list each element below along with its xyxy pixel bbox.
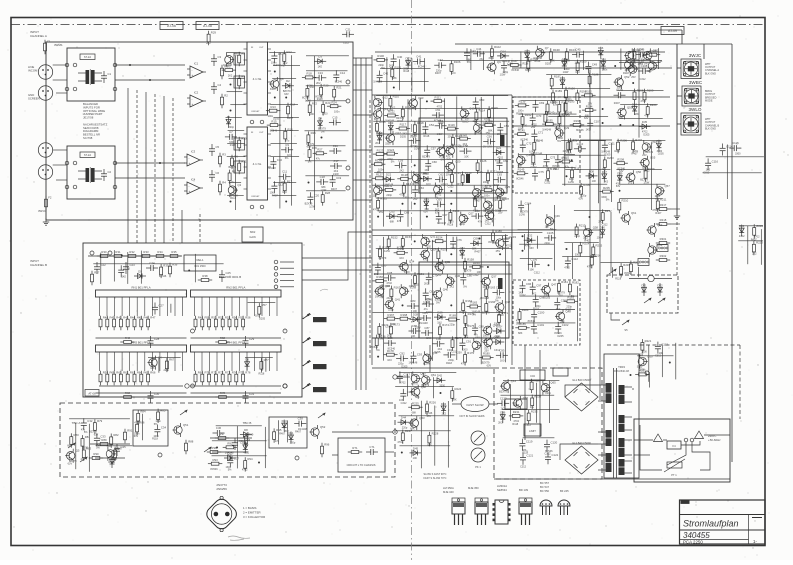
svg-text:Q7: Q7 [545, 46, 549, 50]
ground [43, 218, 49, 225]
svg-text:BC 547: BC 547 [540, 485, 549, 489]
svg-text:R181: R181 [561, 280, 568, 284]
svg-text:25V: 25V [531, 126, 536, 129]
wire [399, 372, 456, 374]
resistor R91 [124, 429, 133, 444]
svg-text:C312: C312 [401, 402, 408, 405]
TR3 secondary winding [619, 459, 633, 475]
terminal T19 [346, 166, 350, 170]
wire [738, 240, 763, 242]
resistor R205 [599, 186, 613, 193]
svg-text:R407: R407 [435, 72, 442, 75]
resistor R150 [547, 167, 558, 182]
wire [517, 322, 576, 324]
svg-text:D205: D205 [558, 335, 565, 338]
resistor R146 [533, 139, 544, 154]
svg-text:R106: R106 [454, 60, 461, 64]
svg-text:C36: C36 [216, 426, 222, 430]
bridge rectifier GL1 [565, 383, 598, 411]
capacitor C14 [333, 70, 345, 82]
svg-text:1N4148: 1N4148 [483, 146, 492, 149]
wire [53, 149, 67, 151]
wire [212, 455, 267, 457]
junction N22 [450, 190, 452, 192]
capacitor C99 [554, 298, 566, 310]
terminal T14 [260, 120, 264, 124]
svg-text:R204: R204 [583, 183, 590, 187]
resistor R9 [238, 75, 246, 90]
resistor R227 [401, 429, 412, 444]
resistor R178 [383, 349, 397, 356]
svg-text:BC 557: BC 557 [540, 481, 549, 485]
svg-text:D39: D39 [617, 172, 623, 176]
resistor R116 [375, 120, 386, 135]
junction N48 [566, 248, 568, 250]
diode D37 [602, 170, 608, 183]
wire [373, 311, 506, 313]
svg-text:R9: R9 [241, 75, 245, 79]
svg-text:1N4148: 1N4148 [409, 362, 418, 365]
wire [677, 95, 682, 97]
svg-text:Q11: Q11 [657, 59, 663, 63]
svg-text:C90: C90 [436, 337, 442, 341]
svg-text:D21: D21 [496, 146, 502, 150]
svg-text:R29: R29 [211, 31, 217, 35]
resistor R174 [439, 323, 450, 338]
diode D6 [245, 358, 250, 371]
transistor Q10 [625, 58, 640, 72]
resistor R50 [201, 316, 210, 331]
diode D22 [383, 173, 395, 182]
capacitor C59 [395, 158, 407, 168]
resistor R182 [568, 281, 579, 296]
wire [564, 242, 598, 244]
svg-text:C95: C95 [499, 348, 505, 352]
transistor Q5 [65, 449, 80, 463]
resistor R21 [333, 86, 342, 101]
svg-text:3300: 3300 [270, 88, 276, 91]
capacitor C76 [450, 237, 462, 249]
transistor Q6 [106, 447, 119, 461]
reference box AT-06 [85, 390, 99, 397]
svg-text:8C546: 8C546 [459, 311, 467, 314]
svg-text:1N4148: 1N4148 [437, 222, 446, 225]
resistor R101 [391, 66, 402, 81]
RN4 pin wires [195, 352, 278, 371]
capacitor C90 [433, 337, 445, 347]
capacitor C96 [520, 281, 532, 293]
svg-text:10K: 10K [545, 225, 550, 228]
wire [227, 143, 245, 145]
IC5 pin marks [244, 49, 272, 104]
capacitor C12 [271, 181, 283, 193]
svg-text:R90: R90 [93, 452, 99, 456]
bridge rectifier GL2 [565, 446, 598, 474]
wire [374, 146, 511, 148]
resistor R201 [567, 139, 578, 154]
resistor R128 [397, 173, 411, 180]
svg-text:1N4148: 1N4148 [542, 128, 551, 131]
wire [378, 107, 508, 109]
svg-text:R407: R407 [655, 212, 662, 215]
wire [739, 225, 763, 227]
svg-text:R78: R78 [220, 391, 226, 395]
capacitor C37 [227, 456, 239, 468]
transistor Q3 [269, 77, 284, 91]
wire [663, 439, 667, 441]
svg-text:10K: 10K [478, 171, 483, 174]
wire [564, 102, 566, 186]
svg-text:C1: C1 [108, 72, 112, 76]
svg-text:C312: C312 [525, 424, 532, 427]
svg-text:R220: R220 [633, 260, 640, 264]
svg-text:68K: 68K [427, 443, 432, 446]
svg-text:C56: C56 [487, 135, 493, 139]
diode D7 [110, 455, 115, 468]
diode D41 [739, 224, 745, 237]
svg-text:IC3: IC3 [191, 150, 196, 154]
svg-text:R118: R118 [424, 135, 430, 138]
svg-text:1N4148: 1N4148 [267, 167, 276, 170]
terminal T3 [113, 63, 117, 67]
svg-text:D13: D13 [406, 57, 412, 61]
capacitor C72 [520, 140, 532, 152]
capacitor C116 [705, 158, 718, 170]
svg-text:NOT IN SLOW VERS: NOT IN SLOW VERS [460, 414, 485, 418]
capacitor C88 [472, 323, 484, 335]
wire [571, 243, 573, 280]
svg-text:TR03: TR03 [618, 365, 625, 369]
diode D43 [441, 402, 447, 415]
svg-text:R12: R12 [287, 50, 293, 54]
wire [670, 223, 680, 225]
svg-text:R162: R162 [394, 285, 401, 289]
resistor R15 [267, 119, 281, 126]
junction N34 [450, 304, 452, 306]
svg-text:47u: 47u [478, 220, 483, 223]
svg-text:R96: R96 [324, 443, 330, 447]
wire left rail [371, 55, 373, 365]
svg-text:D14: D14 [501, 49, 507, 53]
capacitor C115 [729, 141, 741, 151]
svg-text:R175: R175 [468, 324, 475, 328]
svg-text:Q63: Q63 [657, 243, 663, 247]
svg-text:R154: R154 [436, 235, 443, 239]
diode D45 [410, 446, 422, 455]
svg-text:3300: 3300 [322, 113, 328, 116]
wire [657, 48, 659, 69]
svg-text:R232: R232 [531, 409, 538, 413]
svg-text:1K0: 1K0 [500, 360, 505, 363]
resistor R58 [215, 336, 229, 343]
resistor R89 [97, 438, 111, 445]
svg-text:R137: R137 [502, 197, 509, 201]
wire [407, 99, 409, 227]
svg-text:Q5: Q5 [76, 449, 80, 453]
svg-text:D19: D19 [388, 121, 394, 125]
capacitor C26 [118, 265, 130, 277]
resistor R190 [565, 87, 576, 102]
transistor Q60 [411, 372, 426, 386]
svg-text:D205: D205 [643, 134, 650, 137]
svg-text:R199: R199 [647, 89, 654, 93]
svg-text:C312: C312 [520, 294, 527, 297]
switch board SW2 [242, 227, 263, 242]
svg-text:C100: C100 [538, 311, 545, 315]
svg-text:C20: C20 [314, 193, 320, 197]
svg-text:C51: C51 [435, 108, 441, 112]
wire [96, 445, 132, 447]
speaker connector 3WBC [682, 86, 701, 106]
svg-text:R168: R168 [401, 313, 408, 317]
transistor Q2 [228, 183, 241, 197]
resistor R198 [633, 88, 644, 103]
svg-text:R119: R119 [448, 123, 455, 127]
svg-text:C312: C312 [703, 171, 710, 174]
svg-text:C3: C3 [218, 55, 222, 59]
wire [90, 443, 130, 445]
transistor Q28 [484, 208, 500, 222]
svg-text:R148: R148 [536, 152, 543, 156]
transistor Q58 [584, 226, 599, 240]
wire [280, 286, 294, 288]
resistor R224 [451, 387, 462, 402]
relay contact block K2 [638, 259, 649, 266]
resistor R226 [426, 400, 437, 415]
svg-text:3300: 3300 [494, 184, 500, 187]
junction N37 [522, 235, 524, 237]
svg-text:R134: R134 [485, 184, 492, 188]
resistor R156 [394, 247, 408, 254]
svg-text:D22: D22 [386, 173, 392, 177]
svg-text:R118: R118 [512, 423, 518, 426]
capacitor C55 [409, 134, 421, 144]
svg-text:3 = KOLLEKTOR: 3 = KOLLEKTOR [243, 515, 265, 519]
svg-text:R215: R215 [596, 243, 603, 247]
svg-text:C312: C312 [448, 185, 455, 188]
wire [360, 58, 362, 390]
wire [560, 444, 598, 460]
resistor R34 [153, 250, 167, 257]
wire [548, 380, 550, 423]
junction N36 [479, 238, 481, 240]
resistor R233 [635, 369, 649, 376]
capacitor C11 [279, 170, 291, 180]
svg-text:R77: R77 [264, 358, 270, 362]
svg-text:R139: R139 [519, 100, 526, 104]
comparator U20 [452, 397, 498, 412]
transformer TR1 module [67, 48, 115, 101]
resistor R184 [518, 308, 529, 323]
svg-text:C16: C16 [333, 144, 339, 148]
diode D62 [657, 283, 663, 296]
junction N52 [630, 374, 632, 376]
resistor R175 [464, 324, 475, 339]
wire [226, 117, 242, 119]
svg-text:4.1 NL: 4.1 NL [253, 77, 262, 81]
capacitor C69 [533, 100, 545, 112]
diode D2 [282, 79, 294, 88]
svg-text:C312: C312 [343, 41, 350, 44]
capacitor C70 [530, 113, 542, 125]
svg-text:R221: R221 [645, 339, 652, 343]
transformer assembly box [604, 354, 639, 478]
svg-text:BF 245: BF 245 [560, 489, 569, 493]
package drawing T1 [452, 498, 465, 525]
terminal T20 [346, 186, 350, 190]
svg-text:D46: D46 [500, 411, 506, 415]
wire [172, 98, 174, 243]
svg-text:R230: R230 [534, 394, 541, 398]
svg-text:3300: 3300 [309, 113, 315, 116]
resistor R185 [515, 322, 529, 329]
wire [582, 51, 584, 70]
svg-text:47u: 47u [275, 440, 280, 443]
svg-text:R37: R37 [94, 271, 100, 275]
resistor R35 [167, 250, 181, 257]
svg-text:D11: D11 [289, 431, 294, 435]
terminal T21 [90, 251, 94, 255]
transistor Q66 [512, 396, 528, 410]
capacitor C57 [424, 145, 436, 157]
svg-text:R23: R23 [325, 101, 331, 105]
svg-text:R179: R179 [467, 351, 474, 355]
svg-text:C61: C61 [503, 159, 509, 163]
wire [423, 58, 425, 92]
svg-text:Q51: Q51 [183, 423, 189, 427]
junction N43 [619, 124, 621, 126]
junction N2 [149, 79, 151, 81]
capacitor C50 [473, 97, 485, 109]
terminal + [393, 375, 397, 379]
wire [632, 49, 634, 67]
resistor R301 [656, 237, 670, 244]
resistor R136 [474, 195, 485, 210]
resistor R25 [307, 131, 316, 146]
wire [272, 78, 296, 80]
svg-text:Q57: Q57 [665, 184, 671, 188]
resistor R68 [120, 391, 134, 398]
svg-text:Q9: Q9 [497, 60, 501, 64]
svg-text:C110: C110 [577, 142, 584, 146]
resistor R165 [467, 301, 481, 308]
svg-text:RN4 B01 PFLA: RN4 B01 PFLA [226, 341, 245, 345]
svg-text:R118: R118 [446, 362, 452, 365]
svg-text:R86: R86 [139, 421, 145, 425]
resistor R171 [498, 311, 509, 326]
svg-text:Q13: Q13 [418, 96, 424, 100]
svg-text:R27: R27 [317, 148, 323, 152]
wire [480, 235, 482, 364]
svg-text:C71: C71 [369, 445, 375, 449]
terminal - [393, 430, 397, 434]
resistor R221 [641, 339, 652, 354]
svg-text:Q47: Q47 [551, 283, 557, 287]
svg-text:CHANNEL A: CHANNEL A [30, 34, 47, 38]
wire [520, 295, 578, 297]
resistor R110 [389, 95, 400, 110]
wire [148, 357, 181, 359]
svg-text:2K2: 2K2 [206, 42, 211, 45]
svg-text:D45: D45 [413, 446, 419, 450]
svg-text:RN1 B01 PFLA: RN1 B01 PFLA [131, 286, 150, 290]
svg-text:Q4: Q4 [158, 356, 162, 360]
transistor Q26 [483, 198, 498, 212]
svg-text:C312: C312 [403, 196, 410, 199]
resistor R129 [450, 171, 461, 186]
capacitor C34 [154, 425, 166, 437]
transistor Q61 [422, 373, 437, 387]
transistor Q23 [434, 183, 449, 197]
wire [565, 385, 598, 397]
capacitor C84 [422, 297, 434, 307]
wire [386, 57, 388, 93]
resistor R170 [464, 312, 475, 327]
svg-text:R178: R178 [387, 349, 394, 353]
svg-text:R135: R135 [380, 197, 387, 201]
wire [355, 58, 357, 390]
svg-text:R217: R217 [660, 203, 667, 207]
resistor R157 [437, 247, 448, 262]
svg-text:R107: R107 [511, 59, 518, 63]
resistor R142 [521, 113, 532, 128]
capacitor C73 [544, 155, 556, 167]
wire [69, 418, 130, 420]
svg-text:C69: C69 [539, 101, 545, 105]
svg-text:220p: 220p [574, 235, 580, 238]
svg-text:C312: C312 [640, 78, 647, 81]
svg-text:R202: R202 [563, 156, 570, 160]
RN3 pin wires [100, 352, 183, 371]
svg-text:R195: R195 [546, 118, 553, 122]
svg-text:1K0: 1K0 [399, 257, 404, 260]
resistor R8 [238, 52, 246, 67]
junction N42 [632, 82, 634, 84]
svg-text:GAIN: GAIN [249, 235, 255, 239]
resistor R4 [219, 181, 227, 196]
wire [212, 451, 248, 453]
svg-text:D41: D41 [739, 224, 745, 228]
svg-text:C115: C115 [732, 141, 739, 145]
wire [136, 90, 138, 243]
svg-text:B01 1500: B01 1500 [194, 264, 206, 268]
svg-text:BZX79: BZX79 [482, 312, 490, 315]
svg-text:C109: C109 [616, 88, 623, 92]
wire [93, 263, 223, 265]
resistor R144 [558, 112, 569, 127]
svg-text:D7: D7 [110, 455, 114, 459]
svg-text:C108: C108 [641, 64, 648, 68]
wire [406, 374, 408, 397]
wire [230, 104, 245, 106]
svg-text:1/2W: 1/2W [414, 148, 420, 151]
svg-text:Q42: Q42 [505, 300, 511, 304]
svg-text:R136: R136 [477, 195, 484, 199]
transistor Q25 [496, 185, 511, 199]
svg-text:D205: D205 [259, 317, 266, 320]
svg-text:C312: C312 [473, 274, 480, 277]
svg-text:C14: C14 [340, 71, 346, 75]
resistor R94 [244, 457, 253, 472]
diode D28 [410, 313, 422, 322]
svg-text:C50: C50 [479, 98, 485, 102]
warning triangle 1 [654, 434, 663, 442]
svg-text:R407: R407 [475, 250, 482, 253]
resistor R96 [321, 443, 330, 458]
svg-text:R125: R125 [375, 158, 382, 162]
svg-text:R116: R116 [379, 120, 386, 124]
svg-text:3300: 3300 [525, 69, 531, 72]
